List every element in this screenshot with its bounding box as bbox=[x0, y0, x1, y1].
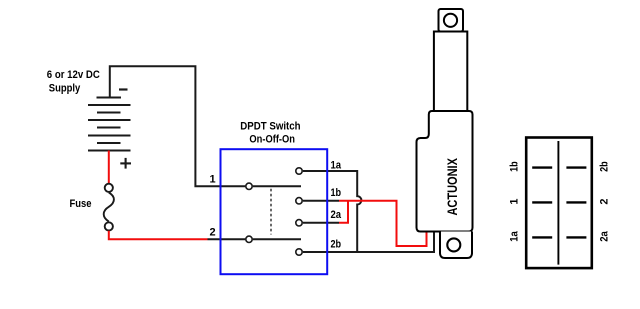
switch S1 enclosure box bbox=[221, 149, 328, 274]
actuator M1 bottom clevis bbox=[440, 232, 472, 259]
svg-text:2a: 2a bbox=[331, 209, 342, 221]
wire 1b to actuator (red) bbox=[339, 201, 427, 246]
svg-text:Fuse: Fuse bbox=[70, 198, 92, 210]
wire 2b to actuator (black) bbox=[303, 231, 434, 252]
svg-text:2b: 2b bbox=[331, 239, 342, 251]
connector J1 pin bars bbox=[532, 168, 586, 238]
switch throw 1a contact bbox=[296, 168, 302, 174]
connector J1 outline bbox=[526, 138, 592, 269]
svg-text:2: 2 bbox=[210, 227, 216, 239]
switch throw 2b contact bbox=[296, 249, 302, 255]
svg-text:2a: 2a bbox=[598, 230, 610, 241]
wire throw 1b stub (black) bbox=[303, 200, 339, 202]
battery minus sign bbox=[119, 88, 128, 90]
wire 1a down to 2b (black, hop over red wire) bbox=[303, 171, 361, 252]
switch lever 1 bbox=[253, 185, 301, 187]
wire battery positive to fuse (red) bbox=[108, 151, 110, 184]
switch pole 1 contact bbox=[246, 183, 252, 189]
battery plus sign bbox=[120, 158, 131, 169]
svg-text:1b: 1b bbox=[331, 187, 342, 199]
svg-text:1a: 1a bbox=[508, 230, 520, 241]
switch throw 1b contact bbox=[296, 198, 302, 204]
svg-text:1a: 1a bbox=[331, 160, 342, 172]
svg-text:Supply: Supply bbox=[49, 82, 81, 94]
battery B1 plates bbox=[88, 98, 131, 151]
svg-text:1: 1 bbox=[508, 198, 520, 204]
wire segment inside switch to pole 2 (black) bbox=[208, 238, 246, 240]
svg-text:1: 1 bbox=[210, 174, 216, 186]
svg-text:DPDT Switch: DPDT Switch bbox=[240, 121, 301, 133]
wire fuse to switch (red) bbox=[109, 231, 208, 240]
svg-text:6 or 12v DC: 6 or 12v DC bbox=[47, 69, 100, 81]
wire 2a up to 1b (red) bbox=[339, 201, 348, 223]
fuse F1 bbox=[104, 184, 114, 231]
switch throw 2a contact bbox=[296, 220, 302, 226]
svg-text:On-Off-On: On-Off-On bbox=[249, 134, 295, 146]
actuator M1 shaft bbox=[434, 32, 467, 112]
actuator M1 top clevis bbox=[439, 9, 464, 32]
svg-text:2b: 2b bbox=[598, 161, 610, 172]
switch mechanical link (dashed) bbox=[270, 189, 272, 235]
switch lever 2 bbox=[253, 238, 301, 240]
svg-text:1b: 1b bbox=[508, 161, 520, 172]
switch pole 2 contact bbox=[246, 236, 252, 242]
connector J1 center divider bbox=[557, 141, 559, 265]
wire battery negative to switch pole 1 (black) bbox=[110, 66, 245, 186]
svg-text:ACTUONIX: ACTUONIX bbox=[444, 158, 460, 216]
svg-text:2: 2 bbox=[598, 198, 610, 204]
actuator M1 body bbox=[417, 111, 473, 232]
wire throw 2a stub (black) bbox=[303, 222, 339, 224]
